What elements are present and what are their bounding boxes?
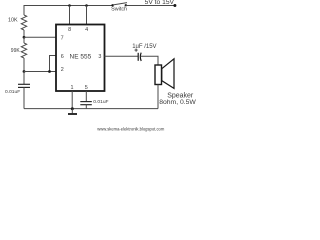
svg-text:99K: 99K [11, 48, 21, 54]
op IC U1 NE555 body [56, 25, 105, 92]
wire between R1 and node [23, 30, 25, 37]
capacitor C1 0.01uF [5, 84, 30, 95]
wire pin 6 link to pin 2 [50, 56, 57, 72]
resistor R1 10K [8, 15, 27, 30]
node junction dot pin8 on top rail [68, 4, 71, 7]
node junction dot R1/R2/pin7 [23, 36, 26, 39]
node junction dot pin6 link / pin2 wire [48, 70, 51, 73]
wire pin 3 output [105, 55, 139, 57]
wire pin 7 horizontal [24, 36, 56, 38]
svg-text:2: 2 [61, 67, 64, 73]
speaker LS1 [155, 59, 196, 106]
svg-text:Switch: Switch [111, 6, 127, 12]
capacitor C3 0.01uF [80, 99, 108, 105]
wire pin 4 vertical [86, 6, 88, 25]
wire pin 8 vertical [69, 6, 71, 25]
svg-text:10K: 10K [8, 18, 18, 24]
wire left rail top [23, 5, 25, 15]
svg-text:1: 1 [71, 85, 74, 91]
wire top supply rail left part [24, 5, 113, 7]
svg-text:7: 7 [61, 35, 64, 41]
node junction dot pin2 wire / left rail [23, 70, 26, 73]
node supply terminal 5V to 15V [145, 0, 177, 7]
svg-text:www.skema-elektronik.blogspot.: www.skema-elektronik.blogspot.com [97, 127, 165, 132]
ground symbol [68, 109, 77, 114]
svg-text:5: 5 [85, 85, 88, 91]
wire pin 2 horizontal [24, 71, 56, 73]
wire pin 1 to ground rail [71, 91, 73, 109]
node junction dot pin1 / ground rail [71, 107, 74, 110]
svg-text:0.01uF: 0.01uF [93, 99, 108, 105]
svg-text:5V to 15V: 5V to 15V [145, 0, 175, 6]
wire C2 to speaker top [141, 56, 158, 65]
svg-text:8: 8 [68, 27, 71, 33]
wire bottom ground rail [24, 108, 158, 110]
capacitor C2 1uF/15V electrolytic [132, 44, 156, 61]
wire top supply rail right part [126, 5, 175, 7]
wire C1 to bottom rail [23, 87, 25, 108]
wire left rail to C1 [23, 72, 25, 85]
svg-text:NE 555: NE 555 [70, 54, 92, 61]
node junction dot pin4 on top rail [85, 4, 88, 7]
wire C3 to ground rail [85, 105, 87, 109]
wire pin 5 to C3 [85, 91, 87, 101]
wire R2 to pin2 node [23, 58, 25, 72]
svg-text:8ohm, 0.5W: 8ohm, 0.5W [159, 99, 196, 106]
svg-text:0.01uF: 0.01uF [5, 89, 20, 95]
svg-text:4: 4 [85, 27, 88, 33]
switch S1 [111, 3, 127, 13]
svg-text:6: 6 [61, 54, 64, 60]
resistor R2 99K [11, 37, 27, 58]
wire speaker bottom to ground rail [157, 85, 159, 109]
svg-text:3: 3 [98, 54, 101, 60]
svg-text:1uF /15V: 1uF /15V [132, 44, 156, 50]
